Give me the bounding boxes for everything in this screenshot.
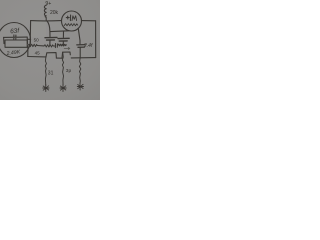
capacitor C3 (62, 31, 64, 45)
source V1 plus mark (66, 15, 70, 21)
capacitor C1 (4, 35, 28, 40)
wire bottom rail left (28, 56, 46, 58)
svg-text:45: 45 (35, 51, 41, 56)
wire ground 3 (79, 58, 80, 84)
svg-text:31: 31 (48, 71, 54, 77)
wire source to capacitor C5 (78, 29, 80, 45)
wire crystal left connector (4, 37, 5, 43)
wire crystal right connector (27, 37, 30, 43)
wire source right (82, 20, 96, 22)
wire left drop (27, 46, 29, 56)
wire ground 2 (62, 52, 63, 85)
svg-text:3p: 3p (66, 68, 72, 74)
svg-text:20k: 20k (50, 10, 59, 16)
resistor R3 (50) zigzag (28, 44, 37, 46)
resistor R4 zigzag (44, 45, 53, 47)
source V1 sine squiggle (64, 24, 78, 26)
capacitor C2 (47, 21, 50, 46)
wire top rail (31, 20, 62, 22)
ground 1 symbol (43, 85, 49, 92)
wire lower middle (37, 45, 44, 47)
wire bottom rail right (71, 57, 95, 59)
source V1 circle (62, 11, 82, 31)
wire rail hop 2 (62, 52, 70, 58)
ground 3 symbol (77, 83, 83, 90)
arrow marker (64, 47, 70, 49)
svg-text:2.4f: 2.4f (83, 43, 93, 49)
resistor R2 (20K) vertical wiggle (44, 5, 46, 20)
wire vertical from top rail to crystal node (29, 21, 31, 45)
wire right border (95, 21, 97, 58)
source V1 M scribble (72, 16, 77, 21)
svg-text:9+: 9+ (45, 1, 51, 7)
wire rail hop 1 (46, 53, 56, 59)
wire ground 1 (45, 57, 46, 86)
capacitor C5 (79, 47, 81, 57)
crystal Y1 enclosure circle (0, 23, 31, 58)
ground 2 symbol (60, 85, 66, 92)
wire source bottom to cap node (50, 30, 68, 33)
resistor R1 box (5, 40, 27, 47)
capacitor C4 series in lower wire (53, 44, 66, 48)
wire bottom rail middle (56, 57, 62, 59)
svg-text:50: 50 (34, 37, 40, 42)
